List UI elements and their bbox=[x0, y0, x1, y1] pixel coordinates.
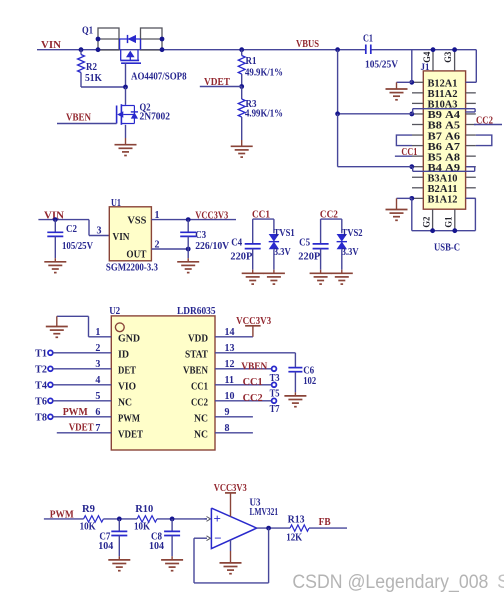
svg-text:C1: C1 bbox=[363, 34, 373, 45]
svg-text:G2: G2 bbox=[423, 216, 433, 227]
svg-text:NC: NC bbox=[118, 397, 132, 408]
svg-text:226/10V: 226/10V bbox=[195, 241, 229, 252]
svg-text:SGM2200-3.3: SGM2200-3.3 bbox=[106, 263, 158, 274]
svg-text:C5: C5 bbox=[299, 237, 310, 248]
svg-text:T1: T1 bbox=[35, 349, 47, 360]
svg-text:B1A12: B1A12 bbox=[428, 195, 458, 206]
svg-text:2: 2 bbox=[155, 239, 160, 250]
svg-text:B11A2: B11A2 bbox=[428, 89, 458, 100]
svg-text:+: + bbox=[214, 511, 221, 526]
svg-text:B7 A6: B7 A6 bbox=[428, 131, 461, 142]
svg-text:1: 1 bbox=[155, 210, 160, 221]
svg-text:VCC3V3: VCC3V3 bbox=[236, 316, 271, 327]
svg-text:G1: G1 bbox=[445, 216, 455, 227]
svg-text:TVS2: TVS2 bbox=[342, 228, 363, 239]
svg-text:CC1: CC1 bbox=[243, 377, 263, 388]
svg-text:105/25V: 105/25V bbox=[62, 241, 93, 252]
svg-text:VIO: VIO bbox=[118, 381, 136, 392]
svg-text:B3A10: B3A10 bbox=[428, 173, 458, 184]
svg-text:PWM: PWM bbox=[63, 407, 89, 418]
svg-text:VSS: VSS bbox=[127, 216, 146, 227]
svg-text:AO4407/SOP8: AO4407/SOP8 bbox=[131, 72, 187, 83]
svg-text:LDR6035: LDR6035 bbox=[177, 306, 216, 317]
svg-text:VCC3V3: VCC3V3 bbox=[195, 211, 228, 222]
svg-text:220P: 220P bbox=[230, 251, 253, 262]
svg-text:T6: T6 bbox=[35, 397, 47, 408]
svg-text:B2A11: B2A11 bbox=[428, 184, 458, 195]
svg-text:DET: DET bbox=[118, 365, 136, 376]
svg-text:VIN: VIN bbox=[113, 232, 130, 243]
svg-text:CSDN @Legendary_008: CSDN @Legendary_008 bbox=[292, 571, 488, 593]
svg-text:STAT: STAT bbox=[185, 349, 208, 360]
svg-text:USB-C: USB-C bbox=[434, 243, 460, 254]
svg-text:CC2: CC2 bbox=[243, 393, 263, 404]
svg-text:VDET: VDET bbox=[204, 77, 230, 88]
svg-text:3.3V: 3.3V bbox=[342, 247, 359, 258]
svg-text:GND: GND bbox=[118, 333, 140, 344]
svg-text:B8 A5: B8 A5 bbox=[428, 121, 461, 132]
svg-text:G3: G3 bbox=[444, 51, 454, 62]
svg-text:OUT: OUT bbox=[126, 250, 146, 261]
svg-text:VBEN: VBEN bbox=[183, 365, 208, 376]
svg-text:B5 A8: B5 A8 bbox=[428, 152, 461, 163]
svg-text:VIN: VIN bbox=[41, 40, 62, 51]
svg-text:VDET: VDET bbox=[69, 423, 94, 434]
svg-text:ID: ID bbox=[118, 349, 129, 360]
svg-text:PWM: PWM bbox=[118, 413, 140, 424]
svg-text:3: 3 bbox=[97, 226, 102, 237]
svg-text:TVS1: TVS1 bbox=[274, 228, 295, 239]
svg-text:10K: 10K bbox=[134, 521, 151, 532]
svg-text:C2: C2 bbox=[66, 224, 77, 235]
svg-text:VBUS: VBUS bbox=[296, 39, 319, 50]
svg-text:U2: U2 bbox=[109, 306, 120, 317]
svg-text:B12A1: B12A1 bbox=[428, 79, 458, 90]
svg-text:C6: C6 bbox=[303, 365, 314, 376]
svg-text:102: 102 bbox=[303, 376, 316, 387]
svg-text:VBEN: VBEN bbox=[66, 112, 92, 123]
svg-text:J1: J1 bbox=[421, 63, 430, 73]
svg-text:LMV321: LMV321 bbox=[250, 507, 279, 518]
svg-text:S: S bbox=[497, 571, 504, 593]
svg-text:C4: C4 bbox=[231, 237, 243, 248]
svg-text:12K: 12K bbox=[286, 533, 303, 544]
svg-text:104: 104 bbox=[98, 541, 114, 552]
svg-text:2N7002: 2N7002 bbox=[140, 112, 171, 123]
svg-text:10K: 10K bbox=[80, 521, 97, 532]
svg-text:R9: R9 bbox=[82, 504, 95, 515]
svg-text:FB: FB bbox=[319, 517, 331, 528]
svg-text:Q1: Q1 bbox=[82, 26, 93, 37]
svg-text:49.9K/1%: 49.9K/1% bbox=[245, 68, 283, 79]
svg-text:T7: T7 bbox=[270, 404, 280, 415]
svg-text:T4: T4 bbox=[35, 381, 48, 392]
svg-text:T2: T2 bbox=[35, 365, 47, 376]
svg-text:R13: R13 bbox=[288, 514, 305, 525]
svg-text:B9 A4: B9 A4 bbox=[428, 110, 461, 121]
svg-text:G4: G4 bbox=[423, 51, 433, 62]
svg-text:C3: C3 bbox=[195, 230, 206, 241]
svg-text:3.3V: 3.3V bbox=[274, 247, 291, 258]
svg-text:NC: NC bbox=[194, 413, 208, 424]
svg-text:R1: R1 bbox=[246, 56, 257, 67]
svg-text:B6 A7: B6 A7 bbox=[428, 142, 461, 153]
svg-text:220P: 220P bbox=[298, 251, 321, 262]
svg-text:−: − bbox=[214, 531, 221, 546]
svg-text:CC1: CC1 bbox=[191, 381, 208, 392]
svg-text:U1: U1 bbox=[111, 198, 121, 209]
svg-text:R10: R10 bbox=[135, 504, 153, 515]
svg-text:CC2: CC2 bbox=[191, 397, 208, 408]
svg-text:B4 A9: B4 A9 bbox=[428, 163, 461, 174]
svg-text:R2: R2 bbox=[86, 62, 97, 73]
svg-text:T8: T8 bbox=[35, 413, 47, 424]
svg-text:104: 104 bbox=[149, 541, 165, 552]
svg-text:VDD: VDD bbox=[188, 333, 208, 344]
svg-text:51K: 51K bbox=[85, 73, 103, 84]
svg-text:VDET: VDET bbox=[118, 429, 143, 440]
svg-text:NC: NC bbox=[194, 429, 208, 440]
svg-text:4.99K/1%: 4.99K/1% bbox=[245, 109, 283, 120]
svg-text:VBEN: VBEN bbox=[241, 361, 268, 372]
svg-text:105/25V: 105/25V bbox=[365, 60, 398, 71]
